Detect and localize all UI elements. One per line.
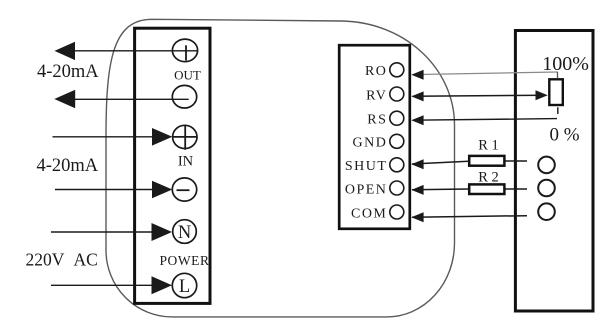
svg-text:4-20mA: 4-20mA — [37, 156, 99, 176]
svg-text:N: N — [178, 223, 191, 243]
svg-text:RO: RO — [365, 64, 387, 79]
svg-text:0 %: 0 % — [550, 125, 580, 146]
svg-text:RV: RV — [366, 88, 387, 103]
svg-text:4-20mA: 4-20mA — [37, 62, 99, 82]
svg-text:POWER: POWER — [160, 253, 210, 268]
svg-text:OPEN: OPEN — [345, 182, 388, 197]
svg-text:GND: GND — [353, 136, 388, 151]
svg-text:COM: COM — [351, 206, 387, 221]
svg-text:RS: RS — [367, 113, 387, 128]
svg-text:R 1: R 1 — [478, 137, 499, 153]
svg-text:SHUT: SHUT — [345, 159, 388, 174]
svg-text:IN: IN — [178, 153, 194, 169]
svg-text:AC: AC — [74, 249, 98, 269]
svg-text:L: L — [179, 277, 190, 297]
svg-text:220V: 220V — [26, 249, 65, 269]
svg-text:OUT: OUT — [174, 68, 201, 83]
svg-text:R 2: R 2 — [478, 169, 499, 185]
